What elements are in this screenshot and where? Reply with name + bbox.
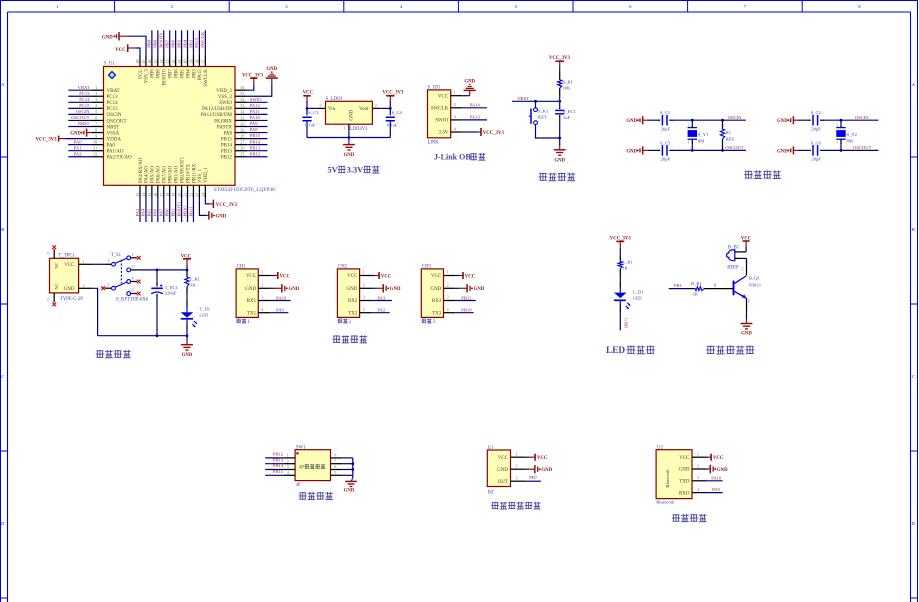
svg-text:BOOT1: BOOT1 (176, 201, 181, 217)
no-connect pin bottom of T_TPC1 (47, 293, 56, 306)
svg-text:6: 6 (334, 464, 336, 469)
wire and net label PA3 at CH2 pin 3 (371, 295, 392, 300)
power VCC port above C3 (303, 91, 314, 101)
svg-text:48: 48 (135, 60, 140, 64)
wire LDO Vout to VCC_3V3 and C4 with junction (372, 103, 391, 110)
svg-text:B_Q1: B_Q1 (749, 275, 761, 280)
svg-text:U1: U1 (488, 446, 494, 451)
svg-text:S_R1: S_R1 (563, 79, 574, 84)
svg-text:47: 47 (141, 60, 146, 64)
svg-text:GND: GND (390, 287, 401, 292)
svg-text:PC15: PC15 (107, 107, 119, 112)
svg-text:T_S1: T_S1 (111, 253, 122, 258)
svg-text:PC13: PC13 (107, 95, 119, 100)
svg-text:PA5/AO: PA5/AO (151, 166, 156, 183)
svg-text:GND: GND (344, 489, 355, 494)
transistor B_Q1 S9013 NPN (714, 275, 762, 303)
svg-text:VCC: VCC (303, 91, 314, 96)
svg-text:5: 5 (334, 470, 336, 475)
power VCC_3V3 port above C4 (382, 91, 404, 109)
svg-text:1: 1 (344, 126, 346, 131)
power VCC port of buzzer circuit (741, 236, 752, 252)
svg-text:GND: GND (182, 353, 193, 358)
resistor T_R1 1K (185, 270, 201, 301)
wire SW1 right pins to common bus (342, 458, 354, 475)
svg-text:A: A (912, 82, 916, 87)
svg-text:S_C3: S_C3 (308, 110, 319, 115)
svg-text:GND: GND (623, 318, 628, 329)
svg-text:SWCLK: SWCLK (200, 31, 205, 48)
svg-text:VSSA: VSSA (107, 131, 120, 136)
svg-text:VCC_3V3: VCC_3V3 (549, 56, 571, 61)
svg-text:7: 7 (744, 4, 747, 9)
svg-text:PB7: PB7 (169, 69, 174, 78)
svg-text:Bluetooth: Bluetooth (665, 469, 670, 488)
svg-text:L_R1: L_R1 (622, 259, 633, 264)
svg-text:44: 44 (159, 60, 164, 64)
svg-text:RXD: RXD (679, 491, 690, 496)
svg-text:PB4: PB4 (182, 39, 187, 48)
svg-text:4: 4 (400, 4, 403, 9)
svg-text:VCC: VCC (381, 274, 392, 279)
wires and rotated net labels PB9..SWCLK at MCU top (147, 30, 206, 54)
svg-text:S_U1: S_U1 (104, 62, 116, 67)
svg-text:3: 3 (285, 4, 287, 9)
MCU bottom pin stubs and numbers 13-24 (135, 185, 205, 197)
svg-text:NRST: NRST (78, 121, 90, 126)
svg-text:4: 4 (287, 470, 289, 475)
svg-text:PB10: PB10 (182, 206, 187, 217)
power VCC_3V3 port at MCU pin 24 VDD_1 (205, 198, 237, 209)
power VCC port at CH3 pin 1 (455, 272, 475, 279)
svg-text:TX2: TX2 (348, 311, 358, 316)
svg-text:T_EC1: T_EC1 (165, 285, 179, 290)
power VCC port of power circuit (181, 254, 192, 270)
svg-text:35: 35 (240, 91, 244, 96)
power VCC_3V3 port above S_R1 (549, 56, 571, 71)
svg-text:PA13: PA13 (470, 115, 481, 120)
svg-text:VCC_3V3: VCC_3V3 (216, 203, 238, 208)
svg-text:BOOT0: BOOT0 (159, 32, 164, 48)
svg-text:PB7: PB7 (165, 39, 170, 48)
wires and net labels SWIO..PB12 at MCU right (247, 97, 267, 157)
svg-text:0: 0 (47, 297, 49, 302)
svg-text:T_R1: T_R1 (190, 277, 201, 282)
wire LDO GND pin to rail (344, 124, 349, 141)
svg-text:4: 4 (363, 307, 365, 312)
svg-text:VSS_3: VSS_3 (145, 69, 150, 84)
svg-text:1: 1 (363, 270, 365, 275)
svg-text:SWIO: SWIO (219, 101, 232, 106)
wire NRST net label (512, 96, 561, 103)
svg-text:PB11: PB11 (461, 295, 472, 300)
wire and net label PB10 at CH3 pin 4 (455, 308, 473, 313)
MCU top and bottom pin names rotated (139, 69, 209, 183)
svg-text:KEY: KEY (538, 115, 548, 120)
title IR obstacle module (491, 502, 540, 509)
svg-text:40: 40 (183, 60, 188, 64)
svg-text:PA1: PA1 (74, 145, 82, 150)
svg-text:PB4: PB4 (186, 69, 191, 78)
svg-text:PB8: PB8 (153, 39, 158, 48)
svg-text:PA12/USB/DP: PA12/USB/DP (202, 107, 232, 112)
svg-text:D: D (912, 521, 916, 526)
svg-text:VCC: VCC (139, 69, 144, 80)
svg-text:PB1/AO: PB1/AO (174, 165, 179, 183)
svg-text:PA15: PA15 (194, 37, 199, 48)
svg-text:37: 37 (201, 60, 206, 64)
capacitor S_C2 20pF (798, 110, 824, 131)
svg-text:PA3: PA3 (135, 208, 140, 216)
svg-text:8: 8 (95, 127, 97, 132)
svg-text:32: 32 (240, 109, 244, 114)
svg-text:PA8: PA8 (224, 131, 233, 136)
svg-text:VCC: VCC (64, 263, 75, 268)
svg-text:VCC_3V3: VCC_3V3 (382, 91, 404, 96)
svg-text:VCC: VCC (438, 94, 449, 99)
svg-text:34: 34 (240, 97, 245, 102)
resistor B_R1 1K on base wire with net label PB1 (669, 281, 734, 296)
svg-text:PC15: PC15 (79, 103, 90, 108)
capacitor S_C1 20pF (648, 110, 674, 131)
crystal S_Y1 8M (688, 120, 709, 150)
svg-text:VCC: VCC (713, 456, 724, 461)
svg-text:U2: U2 (657, 446, 663, 451)
ground GND earth of DIP switch (344, 475, 357, 493)
svg-text:E: E (748, 299, 751, 304)
svg-text:2: 2 (697, 463, 699, 468)
svg-text:PA3: PA3 (377, 295, 385, 300)
svg-text:41: 41 (177, 60, 182, 64)
svg-text:C: C (742, 267, 745, 272)
svg-text:4: 4 (697, 487, 699, 492)
svg-text:2: 2 (171, 4, 173, 9)
svg-text:TXD: TXD (679, 480, 690, 485)
svg-text:Bluetooth: Bluetooth (656, 500, 675, 505)
capacitor S_C4 0.1uF (386, 108, 403, 137)
svg-text:GND: GND (554, 158, 565, 163)
svg-text:OSCOUT: OSCOUT (71, 115, 90, 120)
wires and rotated net labels PA3..PB11 at MCU bottom (135, 198, 194, 223)
wire bottom rail of LDO block (307, 136, 390, 139)
svg-text:PB7: PB7 (529, 475, 538, 480)
svg-text:5: 5 (515, 4, 517, 9)
connector CH1 serial header body and pins (236, 265, 270, 318)
svg-text:OSCIN: OSCIN (76, 109, 90, 114)
svg-text:PB0/AO: PB0/AO (169, 165, 174, 183)
svg-text:VCC: VCC (115, 48, 126, 53)
svg-text:NC: NC (54, 262, 59, 268)
title power circuit (96, 350, 131, 358)
svg-text:B: B (714, 282, 717, 287)
svg-text:24: 24 (201, 193, 206, 197)
svg-text:PA12: PA12 (250, 103, 261, 108)
svg-text:GND: GND (741, 331, 752, 336)
svg-text:PB13: PB13 (221, 150, 233, 155)
wire T_TPC1 GND pin 2 to bottom rail (79, 283, 98, 336)
regulator S_LDO1 LDO3V3 body (326, 97, 373, 132)
svg-text:PB15: PB15 (221, 137, 233, 142)
svg-text:26: 26 (240, 146, 244, 151)
svg-text:OSCOUT: OSCOUT (725, 145, 744, 150)
svg-text:VCC: VCC (246, 274, 257, 279)
power VCC port at U2 pin 1 (706, 454, 724, 461)
svg-text:1: 1 (516, 452, 518, 457)
svg-text:2: 2 (261, 283, 263, 288)
svg-text:GND: GND (102, 35, 113, 40)
svg-text:11: 11 (93, 146, 97, 151)
title buzzer circuit (706, 345, 754, 354)
wire and net label PB7 at U1 pin 3 (525, 475, 541, 481)
svg-text:PC13: PC13 (79, 91, 90, 96)
svg-text:S_JD1: S_JD1 (428, 86, 441, 91)
svg-text:OSCIN: OSCIN (107, 113, 122, 118)
svg-text:PB13: PB13 (250, 145, 261, 150)
wire OSCIN right (825, 115, 879, 122)
wire LED cathode with rotated GND net label (620, 312, 628, 330)
svg-text:GND: GND (70, 131, 81, 136)
svg-text:27: 27 (240, 139, 244, 144)
MCU S_U1 STM32F103C8T6_LQFP48 body (104, 62, 276, 194)
svg-text:PB14: PB14 (250, 139, 261, 144)
svg-text:4: 4 (132, 276, 134, 281)
ground GND port at S_C5 (626, 146, 647, 154)
svg-text:PA10: PA10 (250, 115, 261, 120)
svg-text:PA9TX: PA9TX (217, 125, 232, 130)
svg-text:GND: GND (344, 153, 355, 158)
svg-text:PB5: PB5 (176, 39, 181, 48)
svg-text:CH1: CH1 (237, 265, 247, 270)
svg-text:2: 2 (454, 102, 456, 107)
svg-text:6: 6 (47, 250, 49, 255)
svg-text:PB12: PB12 (221, 156, 233, 161)
svg-text:PA9: PA9 (250, 121, 258, 126)
svg-text:VCC_3V3: VCC_3V3 (36, 138, 58, 143)
module U2 pin stubs and numbers (692, 452, 706, 493)
svg-text:PB12: PB12 (273, 452, 284, 457)
connector T_TPC1 TYPE-C-2P body (50, 254, 84, 302)
svg-text:TYPE-C-2P: TYPE-C-2P (60, 297, 83, 302)
svg-text:PB1: PB1 (170, 208, 175, 217)
svg-text:PB2/BOOT1: PB2/BOOT1 (180, 156, 185, 183)
ground GND bar port at U2 pin 2 (706, 465, 728, 473)
MCU left pin stubs and numbers 1-12 (92, 85, 104, 157)
svg-text:S_C1: S_C1 (660, 110, 671, 115)
ground GND earth below LDO (343, 142, 355, 158)
svg-text:3: 3 (95, 97, 97, 102)
svg-text:SW1: SW1 (296, 445, 306, 450)
power VCC port at CH1 pin 1 (270, 272, 290, 279)
wire and net label PA10 at CH1 pin 3 (270, 295, 291, 300)
svg-text:OSCIN: OSCIN (728, 115, 742, 120)
wire T_TPC1 VCC pin 1 to switch (79, 259, 105, 264)
svg-text:1: 1 (247, 320, 250, 325)
svg-text:1: 1 (688, 141, 690, 145)
wire bottom rail of power circuit (98, 334, 189, 337)
svg-text:GND: GND (777, 149, 788, 154)
svg-text:S9013: S9013 (749, 282, 761, 287)
title serial port circuit (332, 335, 367, 343)
svg-text:PA7/AO: PA7/AO (163, 166, 168, 183)
svg-text:C: C (1, 374, 4, 379)
wire VCC port to MCU pin 48 (136, 48, 140, 54)
svg-text:PA6/AO: PA6/AO (157, 166, 162, 183)
svg-text:S_C6: S_C6 (811, 140, 822, 145)
wire and net label PA10 at U2 pin 3 (706, 475, 723, 481)
svg-text:RX3: RX3 (432, 299, 442, 304)
ground GND port at S_C2 (777, 116, 798, 124)
svg-text:PA11: PA11 (250, 109, 261, 114)
svg-text:29: 29 (240, 127, 244, 132)
label serial port 2 under CH2 (338, 319, 352, 325)
svg-text:VCC_3V3: VCC_3V3 (242, 73, 264, 78)
svg-text:D: D (1, 521, 5, 526)
power VCC_3V3 port of LED circuit (610, 236, 632, 255)
svg-text:1: 1 (454, 90, 456, 95)
svg-text:4P: 4P (296, 483, 301, 488)
switch SW1 pin stubs and numbers (283, 453, 342, 476)
svg-text:VCC: VCC (347, 274, 358, 279)
svg-text:PB6: PB6 (170, 39, 175, 48)
svg-text:8M: 8M (847, 139, 853, 144)
svg-text:OSCOUT: OSCOUT (107, 119, 127, 124)
MCU top pin stubs and numbers 48-37 (135, 54, 205, 66)
wire and net label PA13 at S_JD1 pin 3 (462, 115, 487, 120)
wires and net labels PB12..PB15 at SW1 left (265, 452, 283, 476)
resistor S_R1 10K (558, 71, 574, 101)
ground GND earth at S_JD1 pin 1 (462, 80, 476, 96)
svg-text:2: 2 (516, 464, 518, 469)
svg-text:S_KFT DIP-6X6: S_KFT DIP-6X6 (116, 298, 149, 303)
connector S_JD1 J-Link body (428, 86, 451, 146)
svg-text:S_Y1: S_Y1 (698, 132, 709, 137)
svg-text:38: 38 (195, 60, 200, 64)
svg-text:J-Link OB: J-Link OB (434, 153, 471, 162)
svg-text:2: 2 (447, 283, 449, 288)
ground GND bar port at CH1 pin 2 (270, 284, 300, 292)
svg-text:PB14: PB14 (221, 143, 233, 148)
svg-text:S_K1: S_K1 (538, 108, 549, 113)
svg-text:5: 5 (108, 282, 110, 287)
svg-text:TX1: TX1 (247, 311, 257, 316)
svg-text:10K: 10K (563, 86, 572, 91)
svg-text:4: 4 (454, 126, 457, 131)
svg-text:23: 23 (195, 193, 200, 197)
power VCC_3V3 port at S_JD1 pin 4 (462, 128, 504, 136)
svg-text:25: 25 (240, 152, 244, 157)
power VCC_3V3 port at MCU pin 36 VDD_2 (242, 73, 264, 90)
svg-text:1uF: 1uF (563, 115, 571, 120)
svg-text:3: 3 (320, 103, 322, 108)
wire GND port to MCU pin 47 (129, 36, 147, 54)
svg-text:PA10RX: PA10RX (214, 119, 232, 124)
svg-text:PA6: PA6 (153, 208, 158, 216)
connector S_JD1 pin stubs and numbers (451, 90, 463, 132)
svg-text:30: 30 (240, 121, 244, 126)
power VCC port at CH2 pin 1 (371, 272, 391, 279)
power VCC_3V3 port at MCU pin 9 VDDA (36, 136, 92, 143)
svg-text:VCC: VCC (465, 274, 476, 279)
svg-text:C: C (912, 374, 915, 379)
svg-text:LED: LED (606, 346, 625, 356)
svg-text:4: 4 (95, 103, 98, 108)
svg-text:3: 3 (261, 295, 263, 300)
svg-text:GND: GND (777, 119, 788, 124)
svg-text:PA7: PA7 (159, 208, 164, 216)
svg-text:VSS_2: VSS_2 (218, 95, 233, 100)
svg-text:Vout: Vout (359, 107, 369, 112)
svg-text:2: 2 (363, 283, 365, 288)
svg-text:LINK: LINK (428, 140, 440, 145)
svg-text:PA1/AO: PA1/AO (107, 150, 124, 155)
svg-text:GND: GND (245, 287, 256, 292)
svg-text:PA0: PA0 (74, 139, 82, 144)
svg-text:Vin: Vin (328, 107, 336, 112)
title DIP switch (299, 492, 333, 500)
no-connect pin top of T_TPC1 (47, 245, 56, 258)
wire and net label PA9 at U2 pin 4 (706, 487, 723, 493)
svg-text:8: 8 (858, 4, 860, 9)
svg-text:CH3: CH3 (422, 265, 432, 270)
svg-text:OUT: OUT (498, 480, 508, 485)
svg-text:20pF: 20pF (661, 126, 671, 131)
title Bluetooth module (672, 514, 707, 522)
ground GND power port at MCU pin 8 VSSA (70, 129, 91, 137)
svg-text:43: 43 (165, 60, 170, 64)
svg-text:20pF: 20pF (811, 126, 821, 131)
wire OSCOUT right (825, 145, 879, 152)
svg-text:PA2: PA2 (74, 151, 82, 156)
svg-text:PB10: PB10 (461, 308, 472, 313)
svg-text:18: 18 (165, 193, 170, 197)
svg-text:VDD_1: VDD_1 (204, 167, 209, 183)
MCU left and right pin names (107, 89, 233, 161)
svg-text:OSCOUT: OSCOUT (853, 145, 872, 150)
switch SW1 4P DIP body (295, 445, 330, 488)
ground GND earth at MCU pin 35 VSS_2 (247, 67, 278, 96)
svg-text:PB15: PB15 (273, 469, 284, 474)
svg-text:46: 46 (147, 60, 152, 64)
svg-text:GND: GND (430, 287, 441, 292)
LED L_D1 (614, 282, 644, 313)
svg-text:GND: GND (626, 149, 637, 154)
label serial port 1 under CH1 (236, 319, 250, 325)
svg-text:2: 2 (375, 103, 377, 108)
svg-text:VCC: VCC (498, 456, 509, 461)
ground GND earth of power circuit (181, 336, 193, 358)
svg-text:PB0: PB0 (165, 208, 170, 217)
svg-text:PB8: PB8 (157, 69, 162, 78)
svg-text:GND: GND (497, 468, 508, 473)
power VCC port at U1 pin 1 (525, 454, 548, 461)
svg-text:PA8: PA8 (250, 127, 258, 132)
wire L_R1 to L_D1 (619, 277, 621, 282)
svg-text:NRST: NRST (107, 125, 120, 130)
svg-text:PB3: PB3 (192, 69, 197, 78)
svg-text:33: 33 (240, 103, 244, 108)
svg-text:OSCIN: OSCIN (855, 115, 869, 120)
svg-text:VCC: VCC (431, 274, 442, 279)
svg-text:19: 19 (171, 193, 176, 197)
svg-text:220uF: 220uF (165, 291, 177, 296)
svg-text:PB14: PB14 (273, 463, 284, 468)
svg-text:2: 2 (688, 123, 690, 127)
svg-text:VDD_2: VDD_2 (216, 89, 232, 94)
svg-text:PA2/TX/AO: PA2/TX/AO (107, 156, 132, 161)
svg-text:10: 10 (93, 139, 97, 144)
svg-text:PB11/RX: PB11/RX (192, 163, 197, 183)
svg-text:PA4: PA4 (141, 208, 146, 216)
